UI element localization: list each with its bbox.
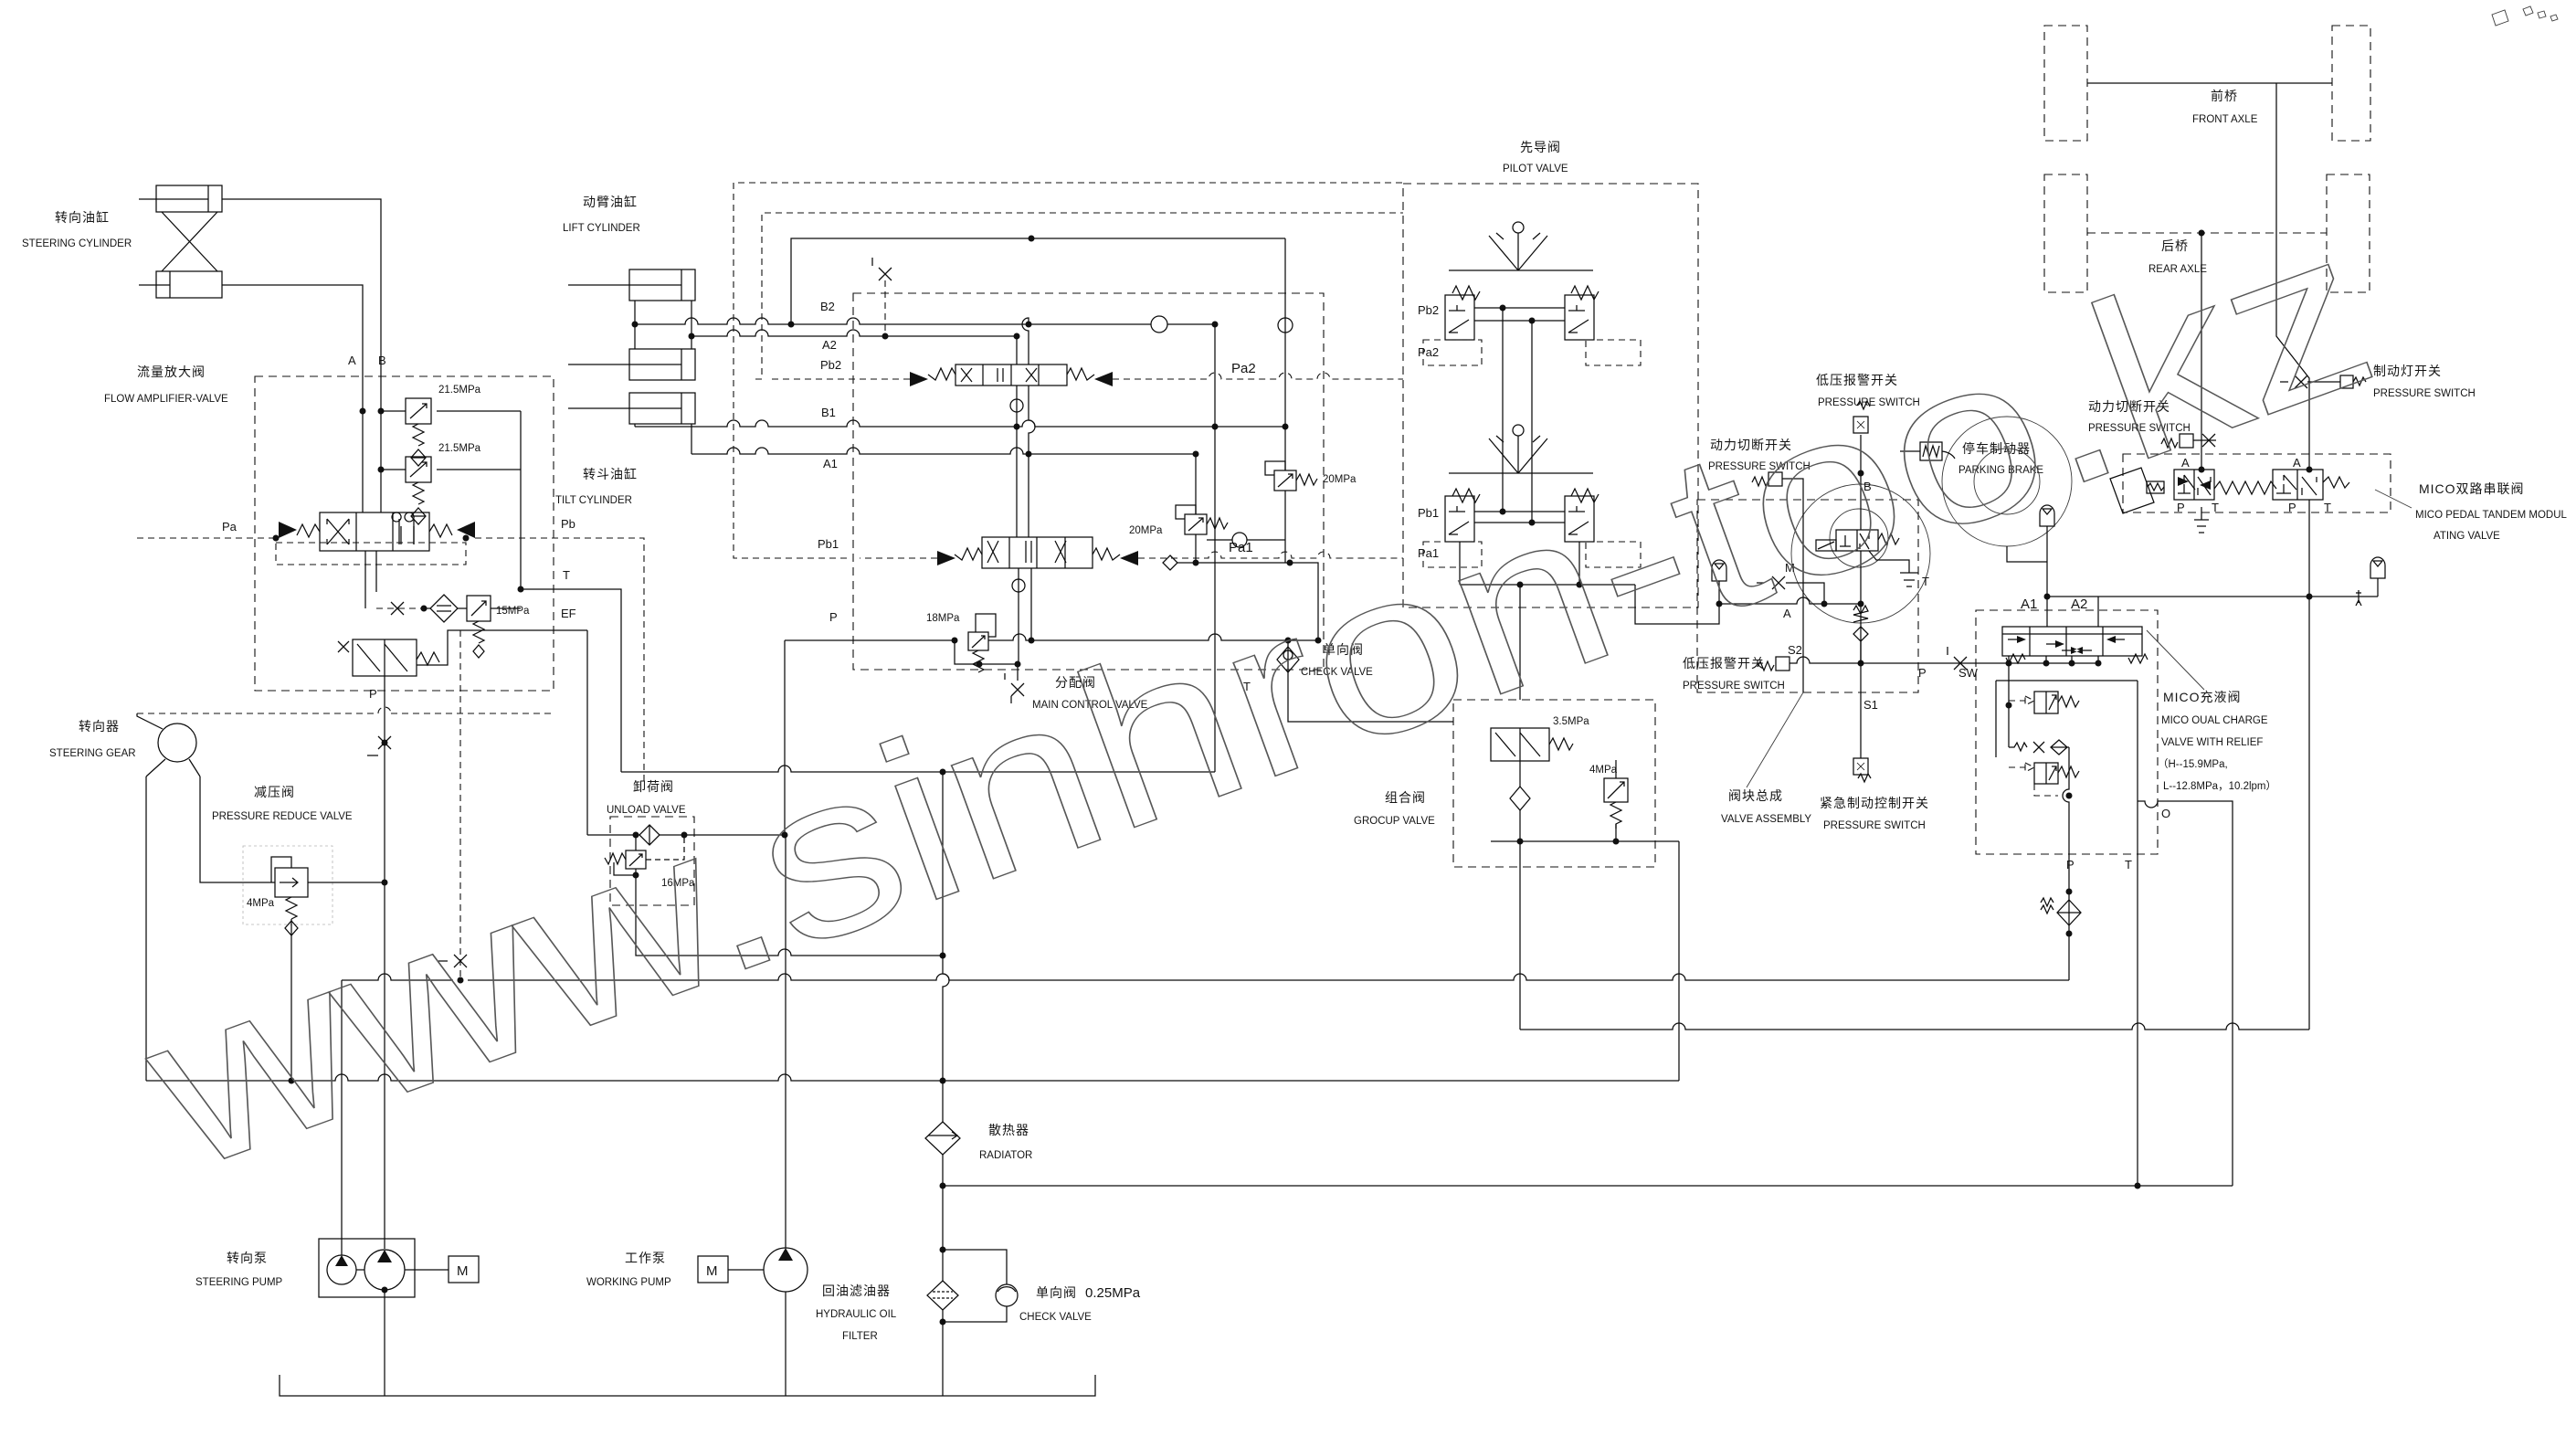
svg-text:LIFT CYLINDER: LIFT CYLINDER <box>563 223 640 234</box>
svg-text:阀块总成: 阀块总成 <box>1728 788 1783 803</box>
node drain joints <box>977 661 1021 668</box>
wire A2 line <box>692 330 1017 336</box>
lift spool valve <box>928 364 1094 386</box>
M throttle <box>1757 576 1824 604</box>
svg-text:Pb2: Pb2 <box>820 358 841 372</box>
node rail joints <box>1193 560 1322 644</box>
check valve on B2 <box>1151 316 1167 333</box>
node pilot upper <box>1500 305 1536 324</box>
dual relief upper <box>2009 692 2079 713</box>
svg-text:PRESSURE SWITCH: PRESSURE SWITCH <box>1823 820 1926 831</box>
check below tilt spool <box>1012 579 1025 592</box>
pressure reduce valve <box>271 857 385 935</box>
pilot triangle right Pb <box>457 522 475 538</box>
tank line <box>280 1375 1095 1396</box>
power cutoff switch symbol <box>1752 472 1803 692</box>
group valve rail <box>1491 840 1679 842</box>
pilot triangle Pa1 <box>1120 551 1138 565</box>
joystick upper <box>1449 222 1593 270</box>
wire S line <box>1789 657 2098 663</box>
wire rear axle down <box>2201 233 2202 470</box>
steering cylinder body 1 <box>139 185 222 212</box>
svg-text:WORKING PUMP: WORKING PUMP <box>586 1277 671 1288</box>
wire pilot upper links <box>1474 308 1565 321</box>
wire reduce valve drain <box>290 919 292 1081</box>
svg-text:18MPa: 18MPa <box>926 613 960 624</box>
pedal valve spring link <box>2214 481 2276 494</box>
svg-text:（H--15.9MPa,: （H--15.9MPa, <box>2158 758 2228 770</box>
svg-text:CHECK VALVE: CHECK VALVE <box>1019 1312 1092 1323</box>
svg-text:紧急制动控制开关: 紧急制动控制开关 <box>1820 796 1929 810</box>
wire pilot lower links <box>1474 512 1565 523</box>
bus tank bottom D <box>943 1185 2233 1187</box>
unload relief valve <box>605 835 684 905</box>
bleed tick on link <box>2356 590 2361 606</box>
wire B1 line <box>635 420 1285 427</box>
svg-text:Pb2: Pb2 <box>1418 303 1439 317</box>
wire P supply main <box>785 634 1318 640</box>
svg-text:P: P <box>2066 858 2075 871</box>
svg-text:B2: B2 <box>820 300 835 313</box>
throttle on LS drain <box>438 955 467 967</box>
node unload to riser <box>940 953 946 959</box>
wire gear to reduce valve <box>146 776 275 1081</box>
node bus D tap <box>940 1183 946 1189</box>
relief valve 18MPa <box>968 614 996 672</box>
pump triangles <box>335 1250 392 1266</box>
svg-text:L--12.8MPa，10.2lpm）: L--12.8MPa，10.2lpm） <box>2163 780 2276 792</box>
svg-text:B1: B1 <box>821 406 836 419</box>
wire B-riser <box>1214 324 1216 772</box>
svg-text:A1: A1 <box>823 457 838 470</box>
check diamond unload <box>639 825 660 845</box>
svg-text:20MPa: 20MPa <box>1129 525 1163 536</box>
front axle wheels <box>2044 26 2370 141</box>
steering directional spool valve <box>297 512 452 551</box>
svg-text:21.5MPa: 21.5MPa <box>438 443 481 454</box>
check on spool leg <box>1010 399 1023 412</box>
svg-text:回油滤油器: 回油滤油器 <box>822 1283 891 1298</box>
steering pump <box>319 1239 415 1297</box>
svg-text:PRESSURE REDUCE VALVE: PRESSURE REDUCE VALVE <box>212 811 353 822</box>
svg-text:FRONT AXLE: FRONT AXLE <box>2192 114 2258 125</box>
svg-text:VALVE WITH RELIEF: VALVE WITH RELIEF <box>2161 737 2263 748</box>
relief valve 21.5MPa #1 <box>360 398 522 466</box>
node T to radiator riser <box>940 769 946 776</box>
svg-text:4MPa: 4MPa <box>1589 765 1618 776</box>
svg-text:散热器: 散热器 <box>988 1123 1029 1137</box>
svg-text:P: P <box>2288 501 2296 514</box>
svg-text:Pa: Pa <box>222 520 238 533</box>
node bleed on A2 <box>882 333 889 340</box>
svg-text:MICO充液阀: MICO充液阀 <box>2163 690 2242 704</box>
wire group T down <box>1678 841 1680 1081</box>
S2 switch symbol <box>1758 657 1789 671</box>
tilt spool valve <box>955 537 1120 568</box>
throttle on drain <box>376 607 424 609</box>
node pedal A ports <box>2199 467 2313 473</box>
wire B2 line <box>635 318 1215 324</box>
svg-text:转向泵: 转向泵 <box>227 1251 268 1265</box>
parking brake drum <box>1942 417 2072 546</box>
wire group valve down <box>1519 841 1521 1030</box>
rear axle line <box>2087 232 2327 234</box>
wire T return <box>621 766 1215 772</box>
steering cylinder cross link <box>162 212 217 271</box>
wire EF from priority valve <box>417 630 587 665</box>
svg-text:S2: S2 <box>1788 643 1802 657</box>
pilot triangle Pb1 <box>937 551 955 565</box>
valve assembly dashed box <box>1697 500 1918 692</box>
steering cylinder body 2 <box>139 271 222 298</box>
node unload drain <box>633 872 639 879</box>
parking brake actuator <box>1900 442 1955 460</box>
svg-text:FILTER: FILTER <box>842 1331 878 1342</box>
dashed Pa2 route <box>1113 373 1403 379</box>
node T junction <box>518 586 524 593</box>
svg-text:FLOW AMPLIFIER-VALVE: FLOW AMPLIFIER-VALVE <box>104 394 228 405</box>
joystick lower <box>1449 425 1593 473</box>
svg-text:MICO PEDAL TANDEM MODUL: MICO PEDAL TANDEM MODUL <box>2415 510 2568 521</box>
svg-text:减压阀: 减压阀 <box>254 785 295 799</box>
pilot reducer lower-left <box>1445 489 1480 542</box>
pedal actuator left <box>2110 468 2164 513</box>
svg-text:转向器: 转向器 <box>79 719 120 734</box>
node A joints <box>1821 601 1828 607</box>
wire P supply down <box>384 676 385 1249</box>
wire P riser <box>784 640 786 835</box>
node B2 tap <box>632 322 639 328</box>
svg-text:21.5MPa: 21.5MPa <box>438 385 481 396</box>
steering gear <box>137 713 200 776</box>
pilot valve dashed box <box>1403 184 1698 607</box>
node pump drain <box>382 1287 388 1294</box>
svg-text:PILOT VALVE: PILOT VALVE <box>1503 164 1568 174</box>
S1 switch symbol <box>1853 758 1871 782</box>
svg-text:Pa2: Pa2 <box>1231 361 1256 376</box>
main control valve dashed box <box>853 293 1324 670</box>
group valve check <box>1510 761 1530 841</box>
node T leg to tank <box>2135 1183 2141 1189</box>
pilot reducer upper-left <box>1445 286 1480 340</box>
node filter branch <box>940 1247 946 1253</box>
radiator <box>925 1122 960 1155</box>
group valve 3.5MPa valve <box>1491 728 1573 761</box>
svg-text:M: M <box>457 1263 469 1279</box>
wire A from cylinder <box>222 285 363 512</box>
node P to relief <box>952 638 958 644</box>
svg-text:0.25MPa: 0.25MPa <box>1085 1285 1141 1301</box>
dashed Pb1 route <box>734 183 1403 558</box>
node P tap <box>382 740 388 746</box>
dashed pilot line below box <box>137 707 554 713</box>
solenoid valve 2-2 <box>1816 530 1899 551</box>
accumulator valve-assembly <box>1712 560 1726 604</box>
pilot dashed line Pa <box>137 535 280 542</box>
dashed bleed stub <box>884 280 886 336</box>
pilot line under spool <box>2009 656 2098 663</box>
wire lift cylinders link <box>635 301 692 349</box>
pilot dashed line Pb to right <box>463 535 645 787</box>
check circle 20MPa#1 <box>1232 533 1247 547</box>
MICO dual charge callout <box>2147 630 2204 690</box>
MICO dual charge dashed box <box>1976 610 2158 854</box>
dashed stubs lower <box>1423 542 1641 567</box>
relief valve 20MPa #1 <box>1207 461 1317 563</box>
pedal valve right <box>2273 470 2349 500</box>
working pump <box>764 1248 808 1292</box>
wire A1 vertical <box>2046 526 2048 627</box>
svg-text:P: P <box>2177 501 2185 514</box>
svg-text:20MPa: 20MPa <box>1323 474 1357 485</box>
dashed Pb2 route <box>755 213 1403 379</box>
svg-text:GROCUP VALVE: GROCUP VALVE <box>1354 816 1435 827</box>
relief valve 20MPa #2 <box>1176 454 1228 563</box>
bus tank return upper <box>342 974 2069 980</box>
power cutoff switch 2 <box>2161 434 2216 448</box>
svg-text:转向油缸: 转向油缸 <box>55 210 110 225</box>
wire radiator riser <box>943 772 949 1122</box>
throttle symbol <box>391 602 404 615</box>
check diamond rail <box>1163 555 1177 570</box>
pilot chamber dashed box under spool <box>276 543 466 565</box>
svg-text:B: B <box>378 354 386 367</box>
wire O line <box>2138 801 2233 1186</box>
relief valve 21.5MPa #2 <box>378 457 522 524</box>
wire pedal right P down <box>2308 500 2310 1030</box>
wire relief chain to T <box>520 411 522 589</box>
wires spool bottom <box>365 551 376 608</box>
group valve dashed box <box>1453 700 1655 867</box>
check valve on riser <box>1278 318 1293 333</box>
node unload joints <box>633 832 788 839</box>
node reduce valve to P <box>382 880 388 886</box>
svg-text:T: T <box>2324 501 2331 514</box>
wire steering pump riser <box>341 980 343 1255</box>
brake circle outer <box>1791 484 1930 623</box>
svg-text:A2: A2 <box>822 338 837 352</box>
wire unload to radiator riser <box>636 905 943 956</box>
wire pilot outputs <box>1460 542 1719 700</box>
pressure switch B <box>1853 401 1870 433</box>
node filter bottom <box>940 1319 946 1326</box>
svg-text:15MPa: 15MPa <box>496 606 530 617</box>
svg-text:T: T <box>2125 858 2132 871</box>
svg-text:RADIATOR: RADIATOR <box>979 1150 1032 1161</box>
svg-text:STEERING CYLINDER: STEERING CYLINDER <box>22 238 132 249</box>
wire A2 riser <box>2097 597 2099 627</box>
spring check under B <box>1853 606 1868 663</box>
node tilt leg to P <box>1029 638 1035 644</box>
svg-text:动臂油缸: 动臂油缸 <box>583 195 638 209</box>
bus tank return lower <box>146 1074 1679 1081</box>
throttle under box <box>1005 673 1024 703</box>
brake light switch <box>2280 375 2366 388</box>
flow amplifier valve dashed box <box>255 376 554 691</box>
MICO pedal tandem valve dashed box <box>2123 454 2391 512</box>
wire pump drain <box>384 1290 385 1396</box>
node drain to bus <box>289 1078 295 1084</box>
motor M steering <box>449 1256 479 1283</box>
wire working pump drain <box>785 1292 787 1396</box>
svg-text:工作泵: 工作泵 <box>625 1251 666 1265</box>
svg-text:流量放大阀: 流量放大阀 <box>137 364 206 379</box>
valve assembly callout <box>1747 692 1803 787</box>
pilot reducer lower-right <box>1565 489 1599 542</box>
dashed Pa1 route <box>1138 552 1403 558</box>
dual charge mid row <box>2009 740 2069 755</box>
accumulator A1 <box>2040 505 2054 526</box>
node check leg <box>1285 638 1292 644</box>
node radiator riser joints <box>940 1078 946 1084</box>
svg-text:S1: S1 <box>1863 698 1878 712</box>
dashed LS drain line <box>459 630 461 980</box>
lift cylinder 1 <box>568 269 695 301</box>
node A2 spool leg <box>1014 333 1020 340</box>
wire A line <box>1719 597 1861 604</box>
svg-text:前桥: 前桥 <box>2211 89 2238 103</box>
svg-text:MICO OUAL CHARGE: MICO OUAL CHARGE <box>2161 715 2268 726</box>
node B2 spool leg <box>1026 322 1032 328</box>
wire T leg down <box>2137 854 2138 1186</box>
check valve symbol <box>1277 647 1299 672</box>
wire radiator to filter <box>942 1155 944 1281</box>
throttle bleed top <box>872 258 892 280</box>
svg-text:EF: EF <box>561 607 576 620</box>
pedal valve left <box>2174 470 2214 500</box>
motor M working <box>698 1256 728 1283</box>
throttle SW <box>1948 647 1967 670</box>
tilt cylinder <box>568 393 695 424</box>
node rear axle <box>2199 230 2205 237</box>
svg-text:A: A <box>2293 456 2301 470</box>
dashed stubs upper <box>1423 340 1641 365</box>
node group rail <box>1517 839 1620 845</box>
svg-text:Pb1: Pb1 <box>818 537 839 551</box>
svg-text:STEERING GEAR: STEERING GEAR <box>49 748 136 759</box>
T drain bracket <box>1869 551 1918 586</box>
pilot triangle Pa2 <box>1094 372 1113 386</box>
MICO pedal callout <box>2375 490 2412 508</box>
svg-text:单向阀: 单向阀 <box>1036 1285 1077 1300</box>
wire B vertical <box>1860 435 1862 758</box>
dual charge spool <box>2002 627 2148 663</box>
node LS drain to bus <box>458 977 464 984</box>
priority valve lower <box>338 639 439 676</box>
svg-text:T: T <box>2212 501 2219 514</box>
wire relief 18MPa drain <box>955 640 1018 681</box>
hydraulic oil filter <box>927 1281 958 1310</box>
node pilot line joints <box>2006 660 2102 667</box>
pilot reducer upper-right <box>1565 286 1599 340</box>
svg-text:T: T <box>563 568 570 582</box>
throttle on P line <box>367 736 391 755</box>
bus mid link E1 <box>1520 1023 2309 1030</box>
svg-text:转斗油缸: 转斗油缸 <box>583 467 638 481</box>
svg-text:P: P <box>829 610 838 624</box>
wire pilot cross links <box>1503 308 1532 523</box>
svg-text:A: A <box>348 354 356 367</box>
wire A1 line <box>692 448 1196 454</box>
watermark logo marks top-right <box>2492 6 2558 26</box>
pilot triangle Pb2 <box>910 372 928 386</box>
front axle line <box>2087 82 2332 84</box>
svg-text:PRESSURE SWITCH: PRESSURE SWITCH <box>1683 681 1785 692</box>
pressure reduce valve dotted frame <box>243 846 333 924</box>
pilot triangle left Pa <box>279 522 297 538</box>
unload check line <box>587 834 785 836</box>
svg-text:ATING VALVE: ATING VALVE <box>2433 531 2500 542</box>
svg-text:TILT CYLINDER: TILT CYLINDER <box>555 495 632 506</box>
svg-text:SW: SW <box>1958 666 1979 680</box>
wire right riser to reliefs <box>1284 238 1286 470</box>
svg-text:组合阀: 组合阀 <box>1385 790 1426 805</box>
wire filter to tank <box>942 1309 944 1396</box>
node A1 junctions <box>1026 451 1199 458</box>
parking brake inner <box>1974 449 2040 514</box>
filter diamond <box>424 595 458 622</box>
wire parking brake down <box>2007 546 2047 562</box>
node drain junction <box>421 606 428 612</box>
wire tilt spool bottom legs <box>1019 568 1031 664</box>
svg-text:Pa2: Pa2 <box>1418 345 1439 359</box>
rear axle wheels <box>2044 174 2370 292</box>
svg-text:4MPa: 4MPa <box>247 898 275 909</box>
svg-text:M: M <box>706 1263 718 1279</box>
svg-text:Pb: Pb <box>561 517 575 531</box>
wire B2 top loop <box>791 238 1285 324</box>
wire motor to pump <box>728 1269 764 1271</box>
accumulator right <box>2370 557 2385 597</box>
dual relief lower <box>2009 763 2079 796</box>
node A2 tap <box>689 333 695 340</box>
svg-text:先导阀: 先导阀 <box>1520 140 1561 154</box>
node B1 junctions <box>1014 424 1289 430</box>
wire B from cylinder <box>222 199 381 512</box>
wire tilt spool top legs <box>1017 427 1029 537</box>
wire T line <box>521 589 621 772</box>
check valve 0.25MPa branch <box>943 1250 1018 1322</box>
svg-text:P: P <box>369 687 377 701</box>
wire accumulator link line <box>2047 596 2378 597</box>
svg-text:P: P <box>1918 666 1927 680</box>
node accumulator link <box>2044 594 2313 600</box>
filter check under P <box>2041 898 2081 925</box>
wire dual charge P leg <box>2063 747 2069 980</box>
node relief rail <box>2006 702 2012 709</box>
node B junctions <box>1858 470 1864 667</box>
pedal T drain bracket <box>2194 507 2209 533</box>
wire front axle down <box>2276 83 2309 470</box>
node B2 to riser <box>1212 322 1219 328</box>
svg-text:VALVE ASSEMBLY: VALVE ASSEMBLY <box>1721 814 1811 825</box>
wire EF down <box>586 630 588 835</box>
group valve relief 4MPa <box>1604 760 1628 841</box>
lift cylinder 2 <box>568 349 695 380</box>
svg-text:STEERING PUMP: STEERING PUMP <box>195 1277 283 1288</box>
wire working pump riser <box>785 835 787 1248</box>
svg-text:MICO双路串联阀: MICO双路串联阀 <box>2419 481 2525 496</box>
working pump triangle <box>778 1248 793 1261</box>
brake circle inner <box>1830 509 1888 567</box>
relief valve 15MPa <box>458 596 521 658</box>
relief rail wire <box>1177 563 1318 640</box>
unload valve dashed box <box>610 817 694 905</box>
svg-text:O: O <box>2161 807 2170 820</box>
node B2 loop <box>1029 236 1035 242</box>
node P leg joints <box>2066 793 2073 937</box>
wire lift spool legs <box>1017 318 1035 454</box>
